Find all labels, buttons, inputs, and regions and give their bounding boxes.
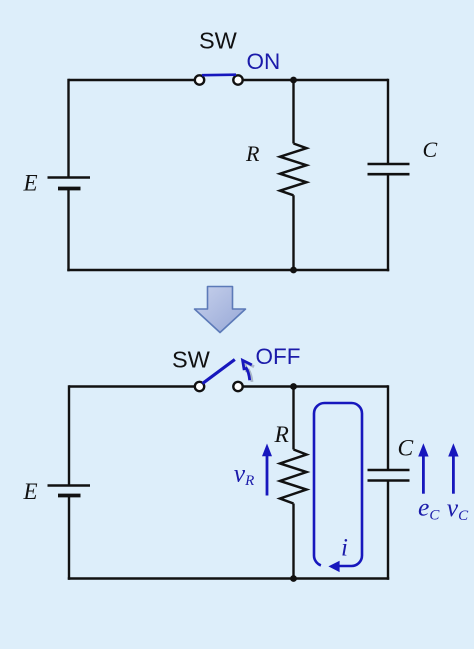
wire right side lower bbox=[387, 174, 389, 271]
wire top-right segment bbox=[243, 385, 388, 387]
wire resistor bottom lead bbox=[292, 195, 294, 270]
svg-text:E: E bbox=[23, 479, 38, 504]
wire left side upper bbox=[68, 385, 70, 485]
node junction dot bottom bbox=[290, 575, 297, 582]
switch lever (open, OFF) bbox=[203, 360, 235, 384]
switch SW contact circles bbox=[195, 382, 243, 391]
svg-text:SW: SW bbox=[199, 28, 238, 54]
voltage arrow e_C bbox=[418, 443, 428, 494]
resistor R zigzag bbox=[280, 144, 307, 196]
wire top-left segment bbox=[69, 79, 196, 81]
wire left side lower bbox=[67, 189, 69, 272]
wire right side upper bbox=[387, 385, 389, 470]
svg-text:R: R bbox=[245, 141, 260, 166]
battery E plates bbox=[48, 486, 91, 496]
voltage arrow v_R bbox=[262, 444, 272, 496]
switch SW contact circles bbox=[195, 75, 243, 84]
wire resistor bottom lead bbox=[292, 504, 294, 579]
wire top-left segment bbox=[69, 385, 195, 387]
wire resistor top lead bbox=[292, 80, 294, 144]
svg-text:OFF: OFF bbox=[256, 344, 301, 369]
capacitor C plates bbox=[368, 470, 410, 481]
svg-text:R: R bbox=[274, 422, 289, 448]
svg-text:i: i bbox=[341, 535, 348, 562]
node junction dot top bbox=[290, 383, 297, 390]
node A junction dot top bbox=[290, 77, 297, 84]
wire top-right segment bbox=[243, 79, 388, 81]
svg-text:E: E bbox=[23, 171, 38, 196]
capacitor C plates bbox=[368, 164, 410, 174]
wire right side upper bbox=[387, 79, 389, 164]
wire bottom bbox=[68, 577, 389, 579]
svg-text:ON: ON bbox=[247, 49, 281, 74]
resistor R zigzag bbox=[280, 450, 307, 504]
svg-text:SW: SW bbox=[172, 347, 211, 373]
wire left side upper bbox=[67, 79, 69, 178]
wire resistor top lead bbox=[292, 387, 294, 450]
svg-text:C: C bbox=[398, 436, 414, 462]
switch motion arrow bbox=[243, 360, 252, 380]
wire left side lower bbox=[68, 496, 70, 580]
switch lever (closed, ON) bbox=[202, 73, 236, 76]
voltage arrow v_C bbox=[448, 443, 458, 494]
wire bottom bbox=[67, 269, 389, 271]
switch motion arrow shadow bbox=[245, 362, 254, 382]
current loop arrowhead bbox=[328, 561, 339, 572]
node junction dot bottom bbox=[290, 267, 297, 274]
current loop bbox=[314, 403, 362, 566]
wire right side lower bbox=[387, 481, 389, 580]
svg-text:C: C bbox=[423, 137, 438, 162]
battery E plates bbox=[48, 178, 91, 189]
